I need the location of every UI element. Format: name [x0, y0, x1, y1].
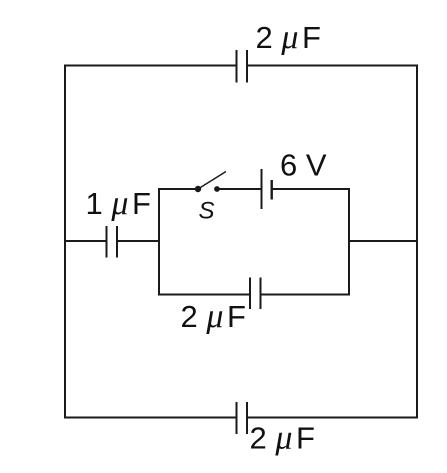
wire inner loop top, left of switch — [159, 188, 198, 190]
wire outer top-right segment — [248, 65, 418, 67]
switch S lever — [198, 172, 226, 190]
switch S contact dots — [195, 186, 220, 192]
label 2 uF bottom capacitor — [250, 420, 315, 457]
capacitor 2uF top (plates) — [237, 50, 248, 83]
label S switch — [199, 198, 215, 225]
wire middle branch from inner loop to right side — [349, 240, 417, 242]
wire inner loop top, between switch and battery — [217, 188, 261, 190]
label 1 uF left capacitor — [86, 185, 151, 222]
svg-text:2 μF: 2 μF — [250, 420, 315, 457]
label 2 uF top capacitor — [256, 19, 321, 56]
wire outer top-left segment — [65, 65, 237, 67]
wire inner loop right side — [348, 188, 350, 296]
capacitor 2uF bottom (plates) — [237, 402, 248, 434]
wire inner loop top, right of battery — [272, 188, 349, 190]
wire outer right side — [416, 65, 418, 419]
capacitor 2uF inner bottom (plates) — [250, 278, 261, 310]
wire outer bottom-left segment — [65, 417, 237, 419]
label 6 V battery — [280, 148, 327, 183]
wire inner loop bottom, right of capacitor — [261, 294, 350, 296]
svg-text:2 μF: 2 μF — [256, 19, 321, 56]
svg-text:6 V: 6 V — [280, 148, 327, 183]
wire outer bottom-right segment — [248, 417, 418, 419]
wire outer left side — [64, 65, 66, 419]
wire middle branch from left side to 1uF capacitor — [65, 240, 107, 242]
battery 6V (long plate and short plate) — [262, 169, 272, 209]
label 2 uF inner capacitor — [181, 298, 246, 335]
svg-text:S: S — [199, 198, 215, 225]
wire inner loop bottom, left of capacitor — [159, 294, 250, 296]
wire middle branch from 1uF capacitor to inner loop — [118, 240, 160, 242]
capacitor 1uF left middle (plates) — [107, 226, 118, 258]
svg-text:1 μF: 1 μF — [86, 185, 151, 222]
svg-text:2 μF: 2 μF — [181, 298, 246, 335]
wire inner loop left side — [158, 188, 160, 296]
